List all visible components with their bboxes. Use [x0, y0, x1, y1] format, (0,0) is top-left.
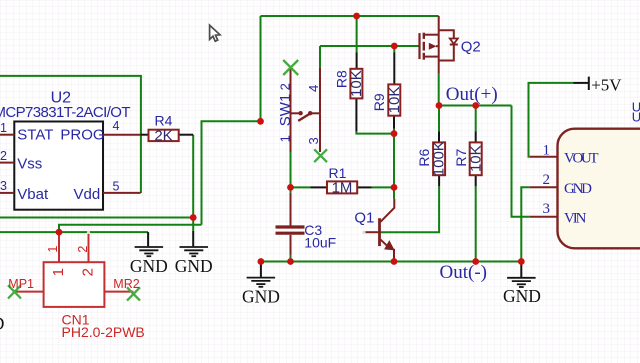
CN1 pin MR2: [104, 291, 133, 293]
GND4 stem: [520, 262, 522, 278]
svg-text:1M: 1M: [332, 180, 353, 197]
U2 pin 5 Vdd: [103, 192, 141, 194]
wire Out(+) to VIN: [512, 106, 530, 217]
svg-text:GND: GND: [0, 313, 4, 333]
svg-text:MR2: MR2: [113, 277, 139, 291]
wire node to R1 rail: [393, 134, 395, 188]
CN1 pin 2 end marker: [87, 231, 90, 234]
wire bottom-left horizontal: [0, 231, 148, 233]
wire Out(-) bottom rail: [261, 261, 521, 263]
Q1 emitter pin: [393, 249, 395, 262]
R1 body: [327, 181, 357, 193]
svg-text:2: 2: [278, 83, 293, 90]
wire R9 top pin: [393, 53, 395, 85]
R7 body: [470, 142, 482, 175]
wire VOUT to +5V: [529, 83, 574, 157]
svg-text:1: 1: [543, 142, 551, 158]
GND1 bar 1: [135, 246, 164, 248]
Q2 source stub: [424, 56, 439, 58]
wire R9 bottom stub: [393, 129, 395, 134]
Q2 channel segment bottom: [423, 53, 425, 60]
wire R8 bottom elbow: [356, 132, 394, 134]
wire BAT+ riser: [202, 121, 261, 225]
svg-text:10uF: 10uF: [304, 235, 336, 251]
wire left GND-net horizontal: [0, 217, 193, 219]
C3 top plate: [276, 225, 305, 228]
svg-text:GND: GND: [130, 256, 168, 276]
U2 body: [14, 122, 103, 210]
wire R6 bottom pin: [438, 175, 440, 186]
svg-text:Q2: Q2: [461, 38, 481, 55]
wire R1 right: [372, 186, 394, 188]
resistor R7: [453, 142, 484, 175]
svg-text:R4: R4: [155, 112, 173, 128]
svg-text:Vss: Vss: [17, 156, 42, 173]
resistor R6: [416, 141, 448, 176]
U1 pin 2 GND: [530, 186, 558, 188]
GND2 bar 2: [184, 249, 203, 251]
GND2 bar 1: [180, 246, 209, 248]
svg-text:2: 2: [76, 246, 90, 253]
SW1 pin 2 line: [290, 68, 292, 113]
svg-text:R1: R1: [329, 165, 347, 181]
GND1 bar 4: [147, 255, 152, 257]
Q1 collector: [381, 199, 395, 222]
svg-text:Vdd: Vdd: [74, 186, 101, 203]
SW1 pin 3 line: [319, 113, 321, 152]
GND3 stem: [260, 262, 262, 277]
svg-text:3: 3: [306, 137, 321, 144]
Q2 gate bar: [418, 33, 420, 59]
svg-text:GND: GND: [564, 181, 592, 197]
svg-text:VIN: VIN: [564, 210, 587, 226]
transistor Q1 NPN: [354, 199, 394, 262]
svg-text:MCP73831T-2ACI/OT: MCP73831T-2ACI/OT: [0, 104, 131, 121]
svg-text:1: 1: [278, 135, 293, 142]
SW1 no-connect X pin3: [314, 149, 327, 162]
SW1 no-connect X pin2: [283, 60, 298, 75]
wire Vdd top-left horizontal: [0, 76, 141, 193]
wire SW1 pin1 to R1 rail: [290, 152, 292, 187]
wire R1 to Q1 collector: [393, 187, 395, 198]
R9 body: [388, 84, 400, 115]
svg-text:2K: 2K: [154, 127, 172, 144]
GND3 bar 4: [259, 286, 264, 288]
svg-text:10K: 10K: [348, 70, 365, 97]
wire R1 left pin: [311, 186, 328, 188]
wire R9 bottom pin: [393, 116, 395, 129]
wire C3 bottom stub: [290, 255, 292, 262]
wire R4 right pin: [179, 134, 194, 136]
node dot R1 right: [391, 184, 398, 191]
R6 body: [433, 142, 445, 175]
svg-text:4: 4: [306, 85, 321, 92]
SW1 lever: [298, 113, 310, 121]
svg-text:U1: U1: [632, 110, 640, 125]
R8 body: [350, 69, 362, 99]
GND4 bar 1: [507, 277, 535, 279]
resistor R9: [371, 84, 403, 115]
Q1 base pin end marker: [362, 231, 365, 234]
wire R7 bottom to rail: [475, 186, 477, 261]
svg-text:2: 2: [0, 149, 7, 163]
IC U1 regulator: [530, 100, 640, 249]
wire C3 top stub: [290, 187, 292, 193]
SW1 contact stub right: [311, 112, 320, 114]
wire BAT+ horizontal: [59, 225, 202, 232]
SW1 contact dot right: [308, 111, 312, 115]
GND4 bar 4: [519, 286, 524, 288]
GND3 bar 2: [251, 280, 270, 282]
Q2 body stub: [436, 45, 439, 47]
SW1 pin 4 line: [319, 68, 321, 113]
U2 pin 3 Vbat: [0, 192, 14, 194]
wire R4 left pin: [141, 134, 149, 136]
U1 pin 3 VIN: [530, 216, 558, 218]
svg-text:Out(-): Out(-): [440, 262, 487, 283]
Q2 channel segment middle: [423, 42, 425, 51]
Q2 diode bottom link: [439, 45, 454, 61]
svg-text:VOUT: VOUT: [564, 150, 599, 166]
U1 body: [558, 129, 640, 249]
wire R1 right pin: [357, 186, 372, 188]
svg-text:+5V: +5V: [591, 75, 622, 94]
svg-text:Out(+): Out(+): [446, 84, 498, 105]
wire GND riser U1: [521, 187, 530, 261]
node dot Out+ R7: [472, 102, 479, 109]
wire top rail drop to R8: [356, 16, 358, 53]
GND2 bar 4: [191, 255, 196, 257]
SW1 pin 1 line: [290, 113, 292, 152]
Q2 diode triangle: [450, 39, 458, 44]
ground symbol GND3: [242, 262, 280, 307]
wire R7 top pin: [475, 131, 477, 142]
U2 pin 2 Vss: [0, 162, 14, 164]
svg-text:R9: R9: [371, 93, 387, 111]
ground symbol GND2: [175, 231, 213, 276]
svg-text:Vbat: Vbat: [17, 186, 49, 203]
GND1 bar 2: [139, 249, 158, 251]
connector CN1: [8, 231, 145, 340]
ground symbol GND1: [130, 232, 168, 276]
wire R6 top stub: [438, 106, 440, 132]
wire R7 bottom pin: [475, 175, 477, 186]
node dot Out+ R6: [436, 102, 443, 109]
GND2 stem: [192, 231, 194, 246]
wire R6 top pin: [438, 131, 440, 142]
U2 pin 1 STAT: [0, 134, 14, 136]
Q1 emitter: [381, 240, 390, 249]
Q2 channel segment top: [423, 33, 425, 39]
MP1 no-connect X: [8, 285, 21, 298]
node dot top rail: [353, 13, 360, 20]
C3 bottom pin: [290, 235, 292, 255]
MR2 no-connect X: [127, 287, 140, 300]
svg-text:3: 3: [543, 201, 551, 217]
switch SW1: [277, 60, 327, 162]
node dot rail Q1 emitter: [391, 258, 398, 265]
svg-text:3: 3: [0, 179, 7, 193]
svg-text:SW1: SW1: [277, 94, 294, 127]
svg-text:GND: GND: [242, 286, 280, 306]
Q1 base bar: [378, 218, 381, 246]
R4 body: [149, 130, 179, 141]
node dot rail GND3: [258, 258, 265, 265]
wire riser to top rail: [260, 16, 262, 121]
wire Out(+) rail: [439, 105, 512, 107]
GND1 stem: [147, 232, 149, 246]
resistor R1: [327, 165, 357, 197]
C3 top pin: [290, 193, 292, 226]
GND4 bar 2: [512, 280, 531, 282]
power flag +5V: [574, 75, 623, 94]
wire Q2 source drop: [438, 74, 440, 106]
SW1 contact stub left: [291, 112, 301, 114]
svg-text:10K: 10K: [386, 87, 403, 114]
mouse cursor: [210, 25, 220, 41]
wire R8 bottom pin: [355, 98, 357, 131]
wire R4 to GND2 vertical: [192, 135, 194, 231]
svg-text:2: 2: [80, 268, 97, 276]
svg-text:STAT: STAT: [17, 127, 53, 144]
svg-text:Q1: Q1: [354, 210, 374, 227]
Q2 body arrow: [429, 43, 437, 50]
U1 pin 1 VOUT: [530, 156, 558, 158]
ground symbol GND4: [503, 262, 541, 306]
GND4 bar 3: [517, 283, 526, 285]
node dot gate row R9: [391, 43, 398, 50]
black wire stubs: [141, 53, 476, 188]
Q2 vertical rail: [438, 30, 440, 74]
wire Q1 base to R6: [380, 186, 440, 232]
svg-text:GND: GND: [503, 286, 541, 306]
+5V bar: [588, 77, 590, 90]
resistor R4: [149, 112, 179, 144]
Q2 drain stub: [424, 34, 439, 36]
IC U2 MCP73831: [0, 90, 141, 210]
node dot rail GND4: [518, 258, 525, 265]
SW1 contact dot left: [298, 111, 302, 115]
node dot BAT+ corner: [257, 118, 264, 125]
GND3 bar 3: [256, 283, 265, 285]
svg-text:100K: 100K: [431, 141, 448, 176]
U2 pin 4 PROG: [103, 134, 141, 136]
GND3 bar 1: [247, 277, 276, 279]
wire R9 top stub: [393, 46, 395, 53]
wire R1 left: [291, 186, 311, 188]
svg-text:1: 1: [50, 268, 67, 276]
svg-text:PH2.0-2PWB: PH2.0-2PWB: [62, 324, 145, 340]
node dot rail C3: [287, 258, 294, 265]
node dot R8 R9: [391, 130, 398, 137]
C3 bottom plate: [276, 232, 305, 235]
svg-text:1: 1: [46, 246, 60, 253]
wire top rail: [261, 15, 439, 17]
resistor R8: [334, 69, 365, 99]
CN1 pin 1: [58, 232, 60, 262]
CN1 pin 2: [88, 234, 90, 262]
node dot GND2: [190, 214, 197, 221]
transistor Q2 PMOS: [420, 16, 481, 74]
svg-text:10K: 10K: [467, 145, 484, 172]
Q1 emitter arrowhead: [385, 241, 394, 250]
Q2 drain pin from rail: [438, 16, 440, 30]
wire R7 top stub: [475, 106, 477, 132]
CN1 body: [44, 262, 105, 307]
svg-text:5: 5: [113, 180, 120, 194]
wire SW1 pin4 drop: [319, 46, 321, 69]
GND1 bar 3: [144, 253, 153, 255]
wire gate row: [320, 45, 420, 47]
capacitor C3: [276, 193, 337, 255]
svg-text:GND: GND: [175, 256, 213, 276]
+5V lead: [574, 82, 589, 84]
svg-text:2: 2: [543, 172, 551, 188]
svg-text:PROG: PROG: [60, 127, 104, 144]
node dot R1 left: [287, 184, 294, 191]
node dot rail R7: [472, 258, 479, 265]
svg-text:MP1: MP1: [8, 277, 34, 291]
Q2 diode cathode bar: [450, 44, 458, 46]
wire R8 top pin: [356, 53, 358, 69]
CN1 pin MP1: [14, 291, 43, 293]
Q1 base pin: [364, 231, 380, 233]
Q2 diode top link: [439, 30, 454, 38]
svg-text:1: 1: [0, 121, 7, 135]
node dot CN1 pin1: [56, 229, 63, 236]
GND2 bar 3: [189, 253, 198, 255]
